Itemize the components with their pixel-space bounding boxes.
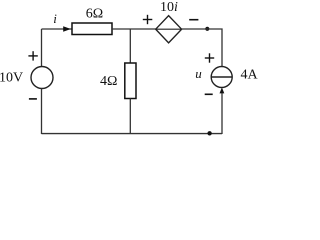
svg-text:i: i bbox=[53, 11, 57, 26]
polarity minus of V1 bbox=[29, 98, 37, 100]
polarity minus of u bbox=[205, 93, 213, 95]
wire left-top segment bbox=[41, 29, 43, 67]
svg-text:6Ω: 6Ω bbox=[86, 7, 103, 22]
bottom wire bbox=[42, 133, 223, 135]
polarity plus of u bbox=[205, 53, 214, 62]
node dot top bbox=[205, 27, 209, 31]
polarity minus of dependent source bbox=[189, 19, 198, 21]
wire top-right segment bbox=[182, 29, 222, 67]
wire left-bottom segment bbox=[41, 89, 43, 135]
svg-text:4A: 4A bbox=[240, 68, 258, 83]
voltage source V1 10V bbox=[31, 67, 53, 89]
svg-text:u: u bbox=[195, 66, 202, 81]
resistor R1 bbox=[72, 23, 112, 35]
wire right-bottom segment bbox=[221, 93, 223, 134]
wire top-left segment bbox=[42, 28, 73, 30]
svg-text:10i: 10i bbox=[160, 0, 178, 15]
wire middle branch top bbox=[129, 29, 131, 63]
wire top middle segment bbox=[112, 28, 156, 30]
dependent source U1 diamond 10i bbox=[156, 16, 182, 43]
current arrow i bbox=[63, 26, 71, 31]
polarity plus of dependent source bbox=[143, 15, 153, 24]
current source I1 4A bbox=[211, 67, 232, 94]
wire middle branch bottom bbox=[129, 99, 131, 135]
node dot bottom bbox=[207, 131, 211, 135]
svg-text:4Ω: 4Ω bbox=[100, 74, 117, 89]
polarity plus of V1 bbox=[28, 51, 37, 60]
svg-text:10V: 10V bbox=[0, 71, 23, 86]
resistor R2 bbox=[125, 63, 136, 99]
